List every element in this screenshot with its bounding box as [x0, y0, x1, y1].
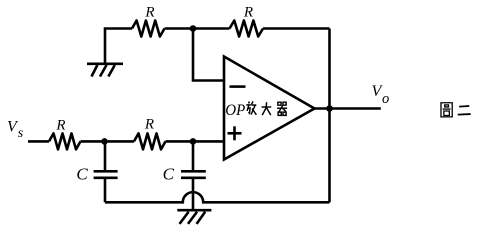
svg-text:OP: OP: [225, 102, 245, 119]
svg-text:R: R: [144, 4, 154, 20]
svg-text:R: R: [243, 5, 253, 21]
svg-text:C: C: [76, 164, 88, 183]
svg-text:R: R: [55, 117, 65, 133]
svg-text:s: s: [18, 126, 24, 141]
svg-text:o: o: [382, 91, 389, 107]
svg-text:C: C: [163, 164, 175, 183]
svg-text:R: R: [144, 117, 154, 133]
